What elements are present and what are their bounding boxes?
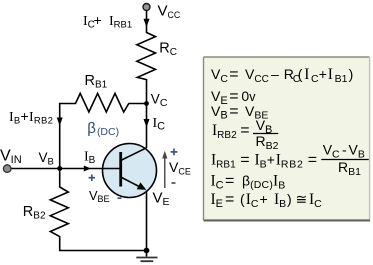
equation box <box>204 57 371 220</box>
svg-text:RC: RC <box>159 41 177 59</box>
svg-text:VCC: VCC <box>158 2 181 20</box>
ground junction <box>144 248 150 254</box>
wire VIN to base <box>7 168 121 170</box>
current arrow IB+IRB2 <box>57 118 63 126</box>
node VC junction <box>144 101 149 106</box>
svg-text:RB2: RB2 <box>23 204 46 222</box>
svg-text:IB+IRB2: IB+IRB2 <box>9 108 53 127</box>
wire RC to node VC <box>146 79 148 104</box>
wire emitter to ground <box>146 191 148 251</box>
equation line 5: IRB1 = IB+IRB2 = (VC-VB)/RB1 <box>211 142 369 178</box>
svg-text:β(DC): β(DC) <box>87 120 119 138</box>
node VB junction <box>57 166 62 171</box>
svg-text:VE: VE <box>153 190 170 209</box>
wire VB to RB2 <box>59 169 61 188</box>
transistor collector lead <box>121 148 147 161</box>
transistor Q1 body <box>103 144 157 198</box>
resistor RB1 <box>76 93 129 112</box>
svg-text:VIN: VIN <box>0 148 22 167</box>
svg-text:IE=(IC+IB)≅IC: IE=(IC+IB)≅IC <box>211 191 323 210</box>
power terminal VCC dot <box>143 4 150 11</box>
svg-text:VCE: VCE <box>169 159 191 177</box>
wire node VC to collector <box>146 104 148 149</box>
equation line 4: IRB2 = VB / RB2 <box>212 117 279 152</box>
resistor RB2 <box>50 187 68 237</box>
input terminal VIN dot <box>3 165 11 173</box>
svg-text:VC: VC <box>151 92 168 110</box>
wire RB1 to node VC <box>129 103 147 105</box>
wire VCC to RC <box>146 11 148 34</box>
emitter arrowhead <box>137 182 147 190</box>
transistor base bar <box>119 152 122 187</box>
current arrow IB <box>84 166 91 172</box>
wire RB2 to ground rail <box>60 236 147 251</box>
svg-text:IC+IRB1: IC+IRB1 <box>83 12 132 31</box>
current arrow IC+IRB1 <box>144 19 150 28</box>
resistor RC <box>137 33 156 80</box>
ground symbol <box>136 258 157 262</box>
label plus VCE <box>171 149 178 156</box>
svg-text:IB: IB <box>84 150 96 167</box>
label minus VCE <box>172 182 176 184</box>
svg-text:RB1: RB1 <box>85 73 108 91</box>
svg-text:VB: VB <box>39 150 54 168</box>
label plus VBE <box>89 175 95 182</box>
label minus VBE <box>118 197 122 199</box>
svg-text:IC: IC <box>153 116 166 133</box>
current arrow IC <box>144 119 150 127</box>
wire left rail top corner <box>60 104 76 169</box>
transistor emitter lead <box>121 177 141 188</box>
svg-text:VBE: VBE <box>89 188 110 204</box>
ground stub <box>146 251 148 257</box>
voltage arrow VCE <box>162 151 167 188</box>
